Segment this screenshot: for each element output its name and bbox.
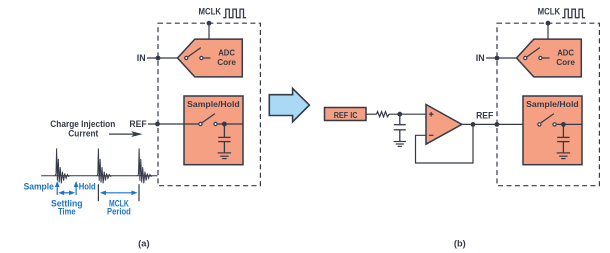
- svg-text:Time: Time: [58, 207, 75, 217]
- wire IN to switch (a): [147, 57, 184, 59]
- svg-text:Sample: Sample: [24, 182, 54, 192]
- svg-text:(a): (a): [138, 238, 149, 248]
- wire resistor to op-amp input: [389, 113, 426, 115]
- Settling Time label: [51, 199, 83, 217]
- wire switch to box edge (a): [218, 123, 243, 125]
- svg-text:Sample/Hold: Sample/Hold: [187, 99, 240, 109]
- clock waveform symbol (b): [562, 9, 585, 18]
- switch inside ADC core (a): [185, 48, 211, 60]
- sample marker arrow: [55, 181, 60, 195]
- switch inside ADC core (b): [524, 48, 550, 60]
- ADC core pentagon U1 (b): [517, 39, 582, 77]
- charge injection burst 3: [138, 148, 153, 183]
- svg-text:Core: Core: [217, 57, 236, 67]
- node MCLK junction (a): [207, 21, 212, 26]
- wire IN to switch (b): [486, 57, 523, 59]
- wire REF to sampling switch (a): [148, 123, 198, 125]
- Sample/Hold block (b): [523, 96, 582, 165]
- decoupling capacitor C2: [394, 114, 406, 141]
- wire switch to box edge (b): [557, 123, 582, 125]
- op-amp minus input label: [429, 134, 434, 136]
- ADC core pentagon U1 (a): [178, 39, 243, 77]
- ground (b hold cap): [557, 153, 570, 159]
- tick mark left of MCLK period: [97, 184, 99, 201]
- svg-text:Charge Injection: Charge Injection: [50, 119, 115, 129]
- wire MCLK to ADC core (a): [208, 23, 210, 39]
- Charge Injection Current label: [50, 119, 115, 139]
- svg-text:IN: IN: [137, 53, 146, 63]
- node hold cap junction (b): [561, 122, 566, 127]
- svg-text:Sample/Hold: Sample/Hold: [526, 99, 579, 109]
- hold marker arrow: [74, 181, 79, 195]
- charge injection burst 1: [55, 148, 70, 183]
- svg-text:REF: REF: [129, 119, 146, 129]
- feedback wire: [416, 124, 474, 163]
- resistor R1: [376, 112, 389, 117]
- MCLK Period label: [107, 199, 131, 217]
- node op-amp output junction: [471, 122, 476, 127]
- clock waveform symbol (a): [223, 9, 246, 18]
- REF IC block: [325, 108, 367, 121]
- sampling switch (a): [199, 114, 217, 126]
- ADC Core label (a): [217, 48, 236, 67]
- svg-text:Hold: Hold: [79, 182, 96, 192]
- ground (decoupling cap): [394, 142, 406, 147]
- svg-text:IN: IN: [476, 53, 485, 63]
- svg-text:MCLK: MCLK: [199, 7, 222, 17]
- svg-text:REF: REF: [476, 110, 493, 120]
- charge injection burst 2: [97, 148, 112, 183]
- Sample/Hold block (a): [184, 96, 243, 165]
- node REF boundary junction (a): [155, 122, 160, 127]
- ADC Core label (b): [556, 48, 575, 67]
- svg-text:Core: Core: [556, 57, 575, 67]
- node hold cap junction (a): [222, 122, 227, 127]
- svg-text:(b): (b): [454, 238, 466, 248]
- charge injection waveform baseline: [41, 175, 157, 177]
- hold capacitor C1 (b): [557, 124, 569, 152]
- svg-text:MCLK: MCLK: [538, 7, 561, 17]
- wire REF IC to resistor: [366, 113, 376, 115]
- settling time span arrow: [58, 191, 75, 196]
- MCLK period span arrow: [100, 191, 138, 196]
- node REF boundary junction (b): [495, 122, 500, 127]
- charge injection arrow: [109, 131, 143, 137]
- svg-text:Period: Period: [107, 207, 131, 217]
- node decoupling junction: [397, 112, 402, 117]
- sampling switch (b): [538, 114, 556, 126]
- op-amp plus input label: [429, 112, 434, 117]
- op-amp U2: [426, 105, 462, 145]
- svg-text:Current: Current: [68, 129, 98, 139]
- node IN boundary junction (a): [156, 56, 161, 61]
- node IN boundary junction (b): [495, 56, 500, 61]
- dashed ADC boundary box (b): [497, 23, 599, 186]
- dashed ADC boundary box (a): [158, 23, 260, 186]
- wire MCLK to ADC core (b): [547, 23, 549, 39]
- ground (a hold cap): [218, 153, 231, 159]
- hold capacitor C1 (a): [218, 124, 230, 153]
- svg-text:REF IC: REF IC: [334, 110, 358, 120]
- wire op-amp output to REF node (b): [462, 123, 538, 125]
- tick mark right of MCLK period: [138, 184, 140, 201]
- node MCLK junction (b): [546, 21, 551, 26]
